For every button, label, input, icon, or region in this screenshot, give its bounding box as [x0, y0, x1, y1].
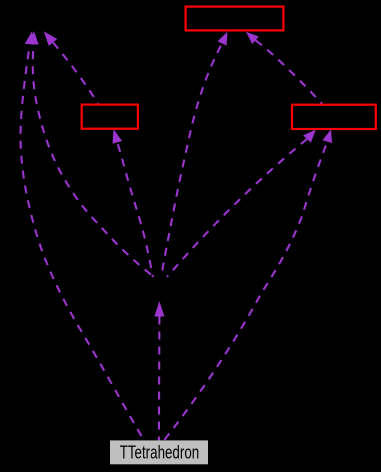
arrowhead at box B from box D	[246, 32, 259, 44]
wire edge node E to box B	[162, 44, 222, 278]
wire edge TTetrahedron to box D	[164, 142, 327, 441]
svg-text:TTetrahedron: TTetrahedron	[120, 443, 200, 463]
wire edge node C to node A	[53, 43, 98, 104]
wire edge box D to box B	[256, 40, 323, 103]
arrowhead at box D from node E	[303, 130, 316, 143]
node TTetrahedron (current node, grey)	[110, 440, 208, 464]
box B (truncated node, top middle)	[186, 7, 284, 31]
box C (truncated node, mid left)	[82, 105, 138, 129]
arrowhead at box C from node E	[113, 129, 123, 144]
box D (truncated node, mid right)	[292, 105, 376, 129]
arrowhead at box D from TTetrahedron	[323, 129, 333, 143]
wire edge TTetrahedron to node A (long left curve)	[21, 44, 145, 440]
wire edge node E to node A	[33, 44, 154, 277]
arrowhead at box B from node E	[218, 32, 228, 46]
wire edge node E to box D	[167, 139, 307, 277]
arrowhead at node E from TTetrahedron	[154, 301, 164, 317]
wire edge TTetrahedron to node E (vertical)	[158, 317, 161, 441]
arrowhead at node A from node E	[29, 31, 39, 44]
arrowhead at node A from box C	[44, 31, 57, 46]
wire edge node E to box C	[117, 142, 153, 277]
arrowhead at node A from TTetrahedron	[25, 31, 35, 45]
